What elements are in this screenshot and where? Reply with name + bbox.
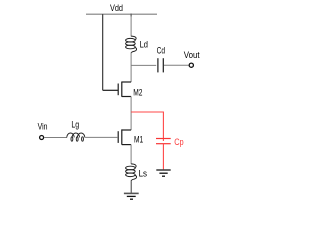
transistor M2 — [103, 82, 131, 97]
wire Vdd rail to Ld — [130, 14, 132, 36]
wire Cp to ground (red) — [162, 144, 164, 170]
svg-text:M1: M1 — [134, 135, 143, 146]
inductor Lg — [67, 133, 85, 141]
wire Vdd rail to M2 gate — [102, 14, 104, 90]
wire Lg to M1 gate — [85, 136, 118, 138]
wire Ls to ground — [130, 181, 132, 193]
capacitor Cd — [158, 58, 163, 72]
wire M1 drain node to Cp (red) — [131, 112, 163, 141]
wire drain node to Cd — [131, 64, 156, 66]
svg-text:Ls: Ls — [139, 169, 148, 180]
Vdd power rail — [86, 13, 157, 15]
wire Cd to Vout — [164, 64, 189, 66]
svg-text:Lg: Lg — [71, 120, 79, 131]
ground below Cp — [156, 170, 170, 176]
ground below Ls — [124, 193, 139, 199]
svg-text:Vdd: Vdd — [110, 3, 123, 14]
wire M1 source to Ls — [130, 145, 132, 164]
svg-text:Cp: Cp — [174, 137, 184, 148]
Vout terminal — [189, 63, 193, 67]
junction tick rail to Ld — [130, 14, 132, 17]
svg-text:Vin: Vin — [38, 122, 48, 133]
inductor Ld — [126, 36, 137, 53]
svg-text:Vout: Vout — [184, 50, 200, 61]
svg-text:Ld: Ld — [140, 40, 148, 51]
svg-text:M2: M2 — [133, 87, 142, 98]
svg-text:Cd: Cd — [157, 46, 165, 57]
transistor M1 — [118, 129, 131, 144]
wire Vin to Lg — [44, 137, 67, 139]
Vin terminal — [40, 136, 44, 140]
wire Ld to M2 drain — [130, 53, 132, 82]
capacitor Cp (red) — [156, 139, 171, 144]
wire M2 source to M1 drain — [130, 97, 132, 131]
inductor Ls — [126, 164, 137, 181]
